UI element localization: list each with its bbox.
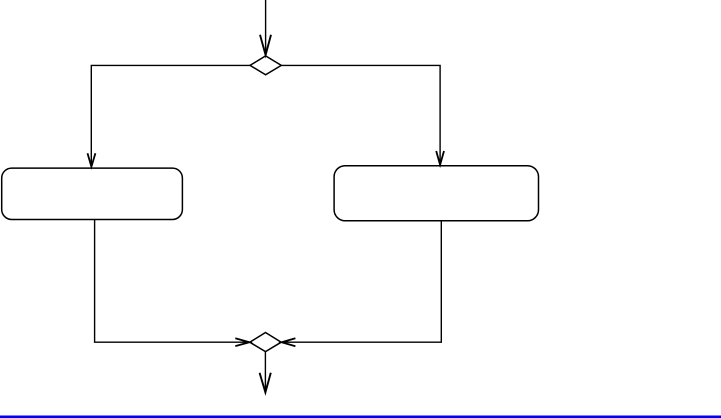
activity box A2 (right rounded rectangle) <box>334 166 538 221</box>
arrowhead into activity box A2 <box>436 151 444 165</box>
arrowhead into D2 left vertex <box>235 338 249 346</box>
activity box A1 (left rounded rectangle) <box>2 168 183 219</box>
wire: left branch from D1 to box A1 <box>91 65 250 166</box>
arrowhead into D2 right vertex <box>282 338 296 346</box>
wire: outgoing edge shaft from D2 <box>264 352 266 393</box>
merge diamond D2 <box>250 333 281 352</box>
wire: incoming edge shaft from top <box>265 0 267 55</box>
arrowhead at end of outgoing edge <box>260 373 271 393</box>
wire: exit edge from A1 to merge diamond D2 <box>95 220 250 343</box>
footer rule (blue band at bottom) <box>0 416 721 418</box>
arrowhead into activity box A1 <box>88 153 96 167</box>
arrowhead into decision diamond D1 <box>260 35 271 55</box>
wire: exit edge from A2 to merge diamond D2 <box>282 221 442 342</box>
wire: right branch from D1 to box A2 <box>281 65 440 165</box>
decision diamond D1 <box>250 56 281 75</box>
